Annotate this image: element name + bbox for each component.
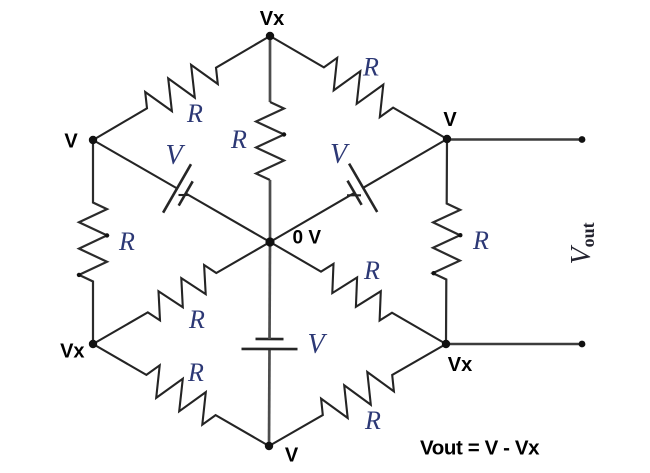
svg-text:V: V — [165, 140, 185, 171]
label R (right edge) — [472, 226, 489, 255]
svg-text:0 V: 0 V — [293, 228, 322, 249]
label R (spoke center to Vx top) — [230, 125, 247, 154]
equation Vout = V - Vx — [420, 437, 540, 460]
label V (battery upper-right) — [330, 139, 350, 170]
battery V (spoke center to V upper-right) — [270, 139, 447, 242]
junction dot (right edge zigzag) — [458, 233, 462, 237]
wire (Vx top to resistor) — [269, 36, 272, 102]
node Vx (lower-right) — [442, 340, 450, 348]
junction dot (center-top zigzag) — [282, 132, 286, 136]
label Vout (output) — [566, 222, 598, 264]
svg-text:Vout = V - Vx: Vout = V - Vx — [420, 437, 540, 460]
resistor R (edge V upper-left to Vx top) — [93, 36, 270, 140]
svg-text:Vx: Vx — [448, 354, 472, 376]
svg-text:V: V — [285, 445, 299, 467]
terminal (upper output) — [579, 136, 586, 143]
label 0 V (center node) — [293, 228, 322, 249]
label R (spoke center to Vx lower-left) — [188, 305, 205, 334]
junction dot (left edge zigzag) — [105, 233, 109, 237]
svg-text:Vx: Vx — [260, 8, 284, 30]
svg-text:R: R — [186, 99, 203, 128]
svg-text:R: R — [230, 125, 247, 154]
terminal (lower output) — [579, 341, 586, 348]
label V (bottom node) — [285, 445, 299, 467]
svg-text:R: R — [187, 358, 204, 387]
svg-text:V: V — [330, 139, 350, 170]
svg-text:R: R — [188, 305, 205, 334]
svg-text:R: R — [363, 256, 380, 285]
svg-text:Vx: Vx — [60, 341, 84, 363]
resistor R (edge V upper-left to Vx lower-left) — [79, 140, 107, 344]
label Vx (top node) — [260, 8, 284, 30]
resistor R (spoke center to Vx lower-right) — [270, 242, 446, 344]
svg-text:V: V — [443, 109, 457, 131]
label Vx (lower-right node) — [448, 354, 472, 376]
node V (upper-left) — [89, 136, 97, 144]
resistor R (edge V upper-right to Vx lower-right) — [433, 139, 460, 344]
node V (upper-right) — [443, 135, 451, 143]
node V (bottom) — [265, 442, 273, 450]
label V (upper-right node) — [443, 109, 457, 131]
resistor R (edge V bottom to Vx lower-right) — [269, 344, 446, 446]
label R (spoke center to Vx lower-right) — [363, 256, 380, 285]
node Vx (top) — [266, 32, 274, 40]
node 0V (center) — [265, 237, 274, 246]
svg-text:R: R — [472, 226, 489, 255]
resistor R (edge Vx lower-left to V bottom) — [93, 344, 269, 446]
svg-text:R: R — [118, 227, 135, 256]
label R (edge V bottom to Vx lower-right) — [364, 406, 381, 435]
wire (Vx lower-right to output terminal) — [446, 343, 582, 346]
wire (V upper-right to output terminal) — [447, 138, 582, 141]
junction dot (right edge zigzag lower) — [432, 271, 436, 275]
svg-text:R: R — [362, 53, 379, 82]
resistor R (edge Vx top to V upper-right) — [270, 36, 447, 139]
battery V (spoke center to V bottom) — [242, 242, 298, 446]
wire (resistor to center) — [269, 180, 272, 242]
label V (battery upper-left) — [165, 140, 185, 171]
label R (left edge) — [118, 227, 135, 256]
label V (battery bottom) — [307, 329, 327, 360]
svg-text:V: V — [307, 329, 327, 360]
resistor R (spoke center to Vx lower-left) — [93, 242, 270, 344]
label R (edge V upper-left to Vx top) — [186, 99, 203, 128]
svg-text:V: V — [64, 131, 78, 153]
label R (edge Vx lower-left to V bottom) — [187, 358, 204, 387]
resistor R (spoke center to Vx top) — [256, 102, 284, 180]
battery V (spoke center to V upper-left) — [93, 140, 270, 242]
label R (edge Vx top to V upper-right) — [362, 53, 379, 82]
label V (upper-left node) — [64, 131, 78, 153]
node Vx (lower-left) — [89, 340, 97, 348]
label Vx (lower-left node) — [60, 341, 84, 363]
svg-text:R: R — [364, 406, 381, 435]
junction dot (left edge zigzag lower) — [77, 273, 81, 277]
